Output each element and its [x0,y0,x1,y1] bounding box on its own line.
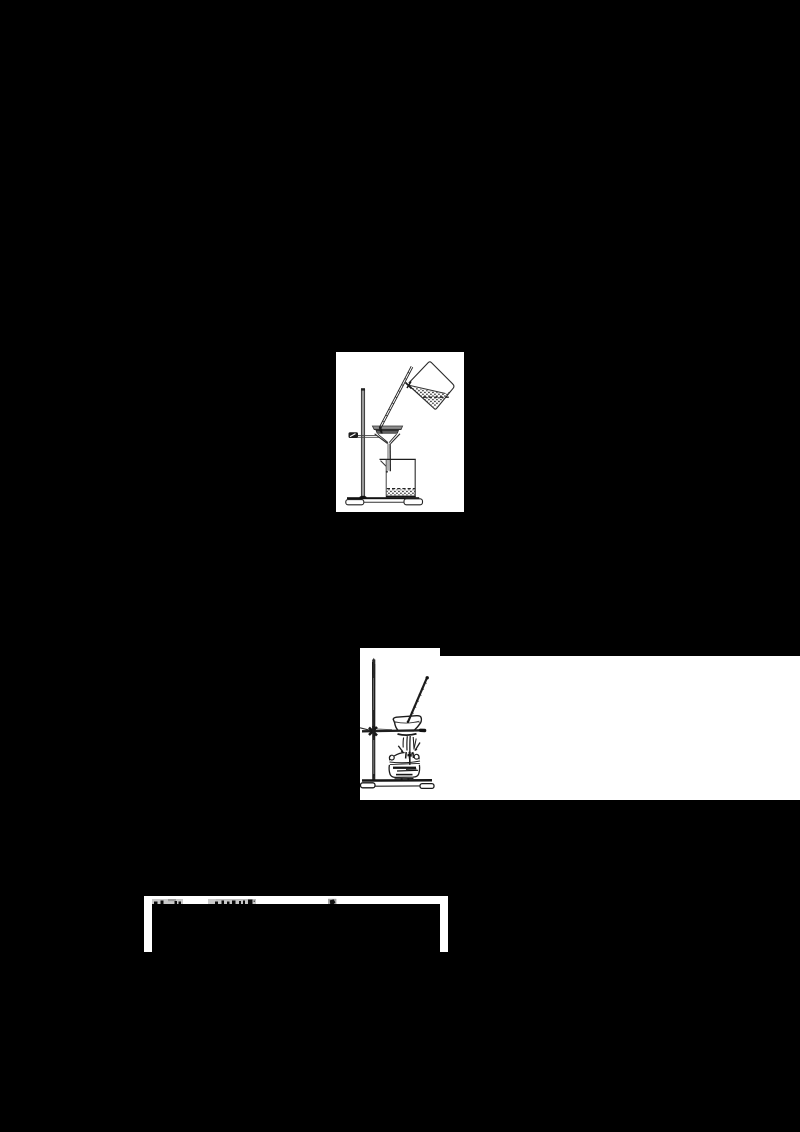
figure 2 white panel B (blank area to right edge) [440,656,800,800]
text glyph tops cluster 1 [152,899,183,904]
stand pole [361,388,365,497]
flame wisps [398,736,420,753]
lamp shoulder curls [389,753,419,761]
answer box: black redaction interior [152,904,440,956]
stand base [346,496,423,505]
liquid in tilted beaker [408,385,452,408]
clamp arm [349,435,383,437]
filtrate liquid in receiving beaker [386,489,416,498]
evaporating dish [393,716,421,731]
lamp wick and neck [406,752,414,772]
funnel cone [375,434,400,445]
lamp foot [395,778,414,781]
funnel stem [386,444,391,473]
dark junction where rod crosses beaker lip [406,382,412,389]
flame arrow ticks [401,748,418,753]
ring clamp arm [362,730,425,731]
clamp knob [349,432,359,438]
lamp collar [390,761,421,765]
dish bottom shadow arc [398,734,417,735]
stand base bar [361,780,435,788]
figure 1 white panel (filtration apparatus) [336,352,464,512]
answer box: white frame band with text tops [144,896,448,952]
figure 2 white panel A (evaporation apparatus) [360,648,440,800]
rod end knot on funnel rim [379,429,382,437]
text glyph tops cluster 2 [208,899,256,904]
glass rod (pouring guide) [379,366,413,429]
pole/arm junction knot [360,726,392,737]
small diagonal mark [328,899,336,904]
funnel rim [372,426,402,433]
alcohol lamp body [389,765,420,778]
stirring rod [407,676,429,723]
tilted beaker being poured [409,362,454,409]
stand pole (hand-drawn) [372,658,375,780]
receiving beaker [380,459,416,495]
